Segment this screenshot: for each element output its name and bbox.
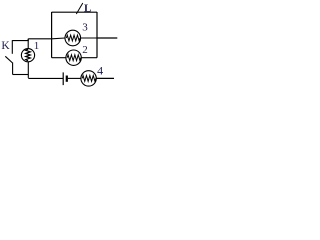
wire: lamp2 left lead	[52, 57, 66, 59]
lamp L3	[65, 30, 81, 46]
lamp L2	[66, 50, 81, 65]
svg-text:K: K	[1, 40, 10, 52]
switch K top stub	[11, 40, 13, 54]
battery short thick plate	[66, 76, 68, 82]
wire: top box right vertical	[96, 12, 98, 58]
wire: bottom right stub	[96, 77, 114, 79]
lamp L1 bottom lead	[27, 62, 29, 78]
svg-text:1: 1	[34, 40, 40, 52]
wire: top box left vertical	[51, 12, 53, 58]
wire: bottom from junction to battery	[28, 77, 63, 79]
switch K bottom stub	[12, 63, 14, 75]
lamp L1	[21, 49, 34, 62]
battery long plate	[62, 72, 64, 85]
wire: top box top side	[52, 11, 97, 13]
lamp L1 top lead	[27, 39, 29, 49]
wire: lamp3 row left lead	[28, 37, 65, 40]
svg-text:4: 4	[97, 64, 103, 78]
wire: lamp2 right lead	[81, 57, 97, 59]
switch K blade (open)	[5, 56, 12, 63]
wire: left top from switch to lamp1 lead	[12, 39, 28, 41]
svg-text:L: L	[84, 3, 91, 15]
wire: switch bottom to lamp1 lead junction	[13, 74, 29, 76]
wire: output stub to the right	[97, 37, 117, 39]
pointer slash for label L	[76, 3, 83, 14]
svg-text:2: 2	[82, 44, 88, 56]
lamp L4	[81, 71, 96, 86]
svg-text:3: 3	[82, 22, 88, 34]
wire: lamp3 right lead	[81, 37, 97, 39]
wire: battery to lamp4	[68, 77, 81, 79]
